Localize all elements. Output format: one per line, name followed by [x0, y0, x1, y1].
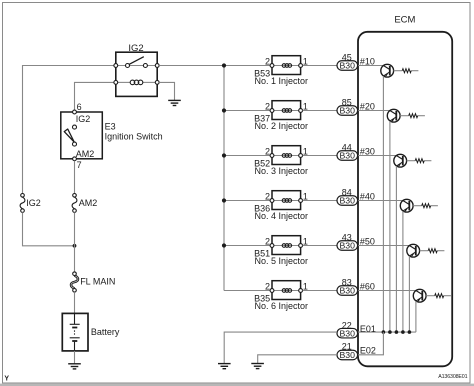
label E3 Ignition Switch [105, 121, 163, 141]
svg-text:1: 1 [303, 281, 308, 291]
ECM pin 21 E02 (B30) [337, 350, 358, 360]
svg-text:#10: #10 [360, 57, 375, 67]
fusible link FL MAIN [71, 272, 78, 292]
svg-text:IG2: IG2 [128, 43, 143, 54]
svg-text:AM2: AM2 [76, 149, 95, 159]
wire: relay coil to ground [159, 82, 174, 100]
injector B52 No. 3 Injector [270, 146, 302, 165]
junction: bus row 3 [222, 153, 226, 157]
svg-text:Ignition Switch: Ignition Switch [105, 132, 163, 142]
resistor R6 (base of Q6) [426, 294, 451, 298]
wire: bus to No.5 injector [224, 245, 272, 247]
wire: injector B35 to ECM pin [303, 290, 337, 292]
wire: injector B51 to ECM pin [303, 245, 337, 247]
pin 6 terminal [73, 110, 77, 114]
svg-text:85: 85 [342, 97, 352, 107]
wire: bus to No.3 injector [224, 155, 272, 157]
relay IG2 box [116, 52, 157, 96]
transistor Q3 (#30 driver) [394, 154, 407, 167]
wire: Q3 emitter to E01 rail [395, 166, 397, 332]
svg-text:AM2: AM2 [79, 198, 98, 208]
wire: injector feed bus (vertical) [223, 66, 225, 291]
wire: AM2 fuse to FL MAIN [74, 212, 76, 272]
svg-text:1: 1 [303, 56, 308, 66]
wire: E01 rail (emitter common) [358, 331, 416, 333]
svg-text:No. 6 Injector: No. 6 Injector [255, 301, 309, 311]
wire: injector B53 to ECM pin [303, 65, 337, 67]
wire: E01 pin to ground [224, 332, 337, 364]
wire: Q2 emitter to E01 rail [389, 121, 391, 332]
svg-text:2: 2 [265, 101, 270, 111]
svg-text:#30: #30 [360, 147, 375, 157]
wire: injector B36 to ECM pin [303, 200, 337, 202]
battery box [62, 313, 88, 351]
svg-text:7: 7 [77, 160, 82, 170]
wire: injector B37 to ECM pin [303, 110, 337, 112]
ECM pin 83 #60 (B30) [337, 286, 358, 296]
ECM pin 84 #40 (B30) [337, 196, 358, 206]
injector B37 No. 2 Injector [270, 101, 302, 120]
svg-text:No. 4 Injector: No. 4 Injector [255, 211, 309, 221]
ECM pin 22 E01 (B30) [337, 328, 358, 338]
ground relay coil [168, 100, 181, 105]
ECM pin 44 #30 (B30) [337, 151, 358, 161]
svg-text:44: 44 [342, 142, 352, 152]
wire: relay output to injector bus and No.1 injector [159, 65, 272, 67]
ECM pin 45 #10 (B30) [337, 61, 358, 71]
svg-text:2: 2 [265, 56, 270, 66]
svg-text:43: 43 [342, 232, 352, 242]
fuse IG2 [20, 194, 25, 213]
svg-text:E01: E01 [360, 324, 376, 334]
wire: Q5 emitter to E01 rail [408, 256, 410, 332]
svg-text:83: 83 [342, 277, 352, 287]
svg-text:21: 21 [342, 342, 352, 352]
junction: bus row 4 [222, 198, 226, 202]
junction: bus row 2 [222, 108, 226, 112]
ground E02 [251, 364, 264, 369]
svg-text:E3: E3 [105, 121, 116, 131]
junction: bus row 1 [222, 63, 226, 67]
svg-text:#20: #20 [360, 102, 375, 112]
transistor Q1 (#10 driver) [381, 64, 394, 77]
injector B35 No. 6 Injector [270, 281, 302, 300]
wire: Q4 emitter to E01 rail [402, 211, 404, 332]
wire: ECM pin #20 to driver transistor [358, 110, 390, 112]
svg-text:1: 1 [303, 146, 308, 156]
svg-text:1: 1 [303, 191, 308, 201]
pin 7 terminal [73, 157, 77, 161]
junction: emitter Q1 on E01 rail [382, 330, 386, 334]
wire: ECM pin #40 to driver transistor [358, 200, 403, 202]
svg-text:Y: Y [4, 376, 9, 383]
svg-text:No. 2 Injector: No. 2 Injector [255, 121, 309, 131]
svg-text:A136308E01: A136308E01 [438, 374, 467, 380]
svg-text:FL MAIN: FL MAIN [80, 277, 115, 287]
svg-text:E02: E02 [360, 346, 376, 356]
svg-text:2: 2 [265, 281, 270, 291]
svg-text:#50: #50 [360, 237, 375, 247]
wire: bus to No.2 injector [224, 110, 272, 112]
wire: bus to No.6 injector [224, 290, 272, 292]
wire: battery to ground [74, 351, 76, 364]
wire: ECM pin #30 to driver transistor [358, 155, 396, 157]
svg-text:Battery: Battery [91, 327, 120, 337]
wire: Q6 emitter to E01 rail [415, 301, 417, 332]
svg-text:No. 1 Injector: No. 1 Injector [255, 76, 309, 86]
svg-text:#40: #40 [360, 192, 375, 202]
ECM pin 85 #20 (B30) [337, 106, 358, 116]
svg-text:45: 45 [342, 52, 352, 62]
wire: injector B52 to ECM pin [303, 155, 337, 157]
resistor R5 (base of Q5) [420, 249, 445, 253]
ground battery [68, 364, 81, 369]
svg-text:2: 2 [265, 146, 270, 156]
wire: relay coil to ignition switch pin 6 [75, 82, 116, 112]
ignition switch E3 box [61, 112, 103, 159]
switch blade Q [64, 129, 74, 142]
wire: Q1 emitter to E01 rail [382, 76, 384, 332]
wire: relay switch output to left bus, down to IG2 fuse [23, 66, 116, 194]
injector B53 No. 1 Injector [270, 56, 302, 75]
ECM box [358, 32, 452, 367]
ECM pin 43 #50 (B30) [337, 241, 358, 251]
wire: E01 rail to E02 pin [358, 332, 383, 355]
junction: emitter Q4 on E01 rail [401, 330, 405, 334]
svg-text:No. 5 Injector: No. 5 Injector [255, 256, 309, 266]
transistor Q2 (#20 driver) [387, 109, 400, 122]
wire: FL MAIN to battery [74, 292, 76, 313]
ground E01 [218, 364, 231, 369]
svg-text:#60: #60 [360, 282, 375, 292]
injector B36 No. 4 Injector [270, 191, 302, 210]
resistor R1 (base of Q1) [394, 69, 419, 73]
junction: emitter Q5 on E01 rail [408, 330, 412, 334]
junction: emitter Q3 on E01 rail [395, 330, 399, 334]
svg-text:22: 22 [342, 320, 352, 330]
injector B51 No. 5 Injector [270, 236, 302, 255]
wire: ECM pin #10 to driver transistor [358, 65, 383, 67]
switch contact circle [73, 125, 77, 129]
fuse AM2 [72, 194, 77, 213]
wire: ECM pin #60 to driver transistor [358, 290, 416, 292]
junction: fuse lines join [73, 244, 77, 248]
transistor Q5 (#50 driver) [407, 244, 420, 257]
relay switch contact [114, 57, 159, 68]
resistor R2 (base of Q2) [400, 114, 425, 118]
battery symbol [70, 313, 80, 351]
svg-text:IG2: IG2 [76, 114, 91, 124]
wire: ECM pin #50 to driver transistor [358, 245, 409, 247]
svg-text:2: 2 [265, 191, 270, 201]
wire: bus to No.4 injector [224, 200, 272, 202]
svg-text:6: 6 [77, 102, 82, 112]
svg-text:No. 3 Injector: No. 3 Injector [255, 166, 309, 176]
svg-text:1: 1 [303, 101, 308, 111]
svg-text:IG2: IG2 [26, 198, 41, 208]
transistor Q6 (#60 driver) [413, 289, 426, 302]
svg-text:ECM: ECM [394, 15, 415, 26]
resistor R4 (base of Q4) [413, 204, 438, 208]
junction: bus row 5 [222, 243, 226, 247]
wire: IG2 fuse to battery junction [23, 212, 75, 245]
transistor Q4 (#40 driver) [400, 199, 413, 212]
wire: E02 pin to ground [258, 355, 337, 364]
svg-text:2: 2 [265, 236, 270, 246]
wire: switch pin 7 to AM2 fuse [74, 161, 76, 194]
svg-text:B30: B30 [339, 350, 355, 360]
svg-text:84: 84 [342, 187, 352, 197]
svg-text:1: 1 [303, 236, 308, 246]
junction: emitter Q2 on E01 rail [388, 330, 392, 334]
resistor R3 (base of Q3) [407, 159, 432, 163]
relay coil [114, 80, 159, 85]
switch pivot circle [73, 142, 77, 146]
